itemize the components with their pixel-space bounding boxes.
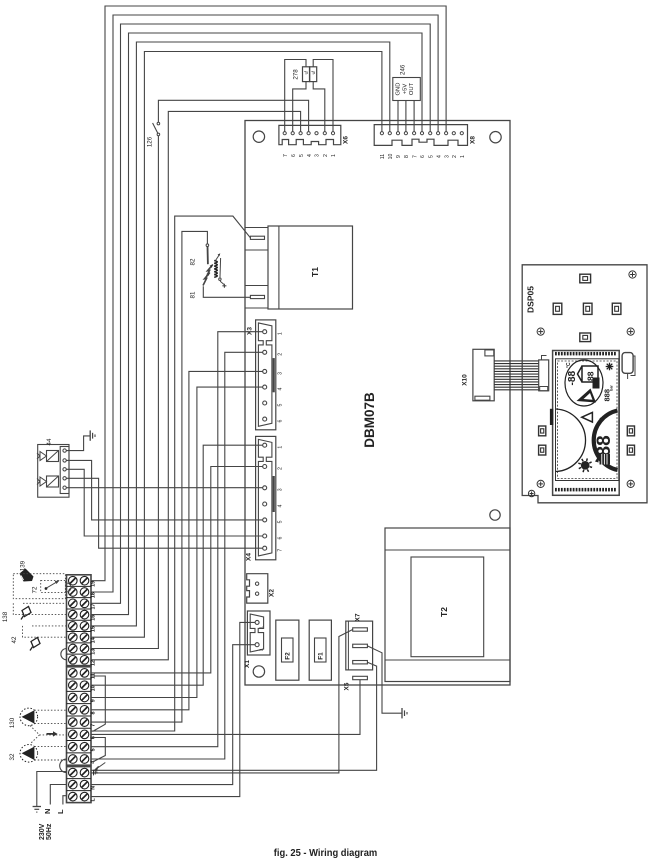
mounting hole bottom-left [253,666,264,677]
svg-text:4: 4 [278,388,284,391]
svg-text:8: 8 [90,712,96,715]
X8 pin 7 [413,132,416,135]
wire terminal17 loop to X8 pin5 [91,24,430,603]
X6 pin 2 [323,132,326,135]
sensor 138 symbol [22,607,31,617]
connector X1 housing [247,611,270,655]
svg-text:2: 2 [278,467,284,470]
svg-text:6: 6 [420,155,426,158]
svg-text:3: 3 [278,372,284,375]
svg-text:GND: GND [396,83,402,96]
terminal 17 row [67,608,92,610]
X8 pin 4 [437,132,440,135]
wire 278 right to X6 pin2 [313,82,325,132]
X8 pin 1 [460,132,463,135]
connector X8 [374,125,467,146]
X8 pin 9 [396,132,399,135]
valve 44 pin 2 [63,459,66,462]
fuse F1 [309,620,331,680]
terminal 14 row [67,642,92,644]
svg-text:5: 5 [299,154,305,157]
terminal 8 row [67,715,92,717]
LCD black tab left [550,409,553,425]
wire X7 blade3 to terminal earth [91,662,377,770]
DSP05 screw bottom corner [528,490,534,496]
wire valve44 pin4 to X4 pin7 [66,478,262,548]
box 246 [393,78,421,101]
svg-text:3: 3 [315,154,321,157]
X4 polarization rib [273,476,275,512]
connector X7 [346,621,373,670]
wire X5 to terminal6 [91,680,360,735]
svg-text:-88: -88 [567,370,578,385]
svg-text:N: N [43,809,52,814]
svg-text:3: 3 [278,488,284,491]
svg-text:X4: X4 [246,553,253,561]
valve 44 pin 3 [63,468,66,471]
DSP05 button top [580,274,591,283]
svg-text:7: 7 [90,724,96,727]
wire X7 blade1 to terminal earth [91,630,353,773]
svg-text:X3: X3 [247,327,254,335]
terminal earth row [67,778,92,780]
svg-text:81: 81 [190,291,197,298]
svg-text:1: 1 [278,332,284,335]
component 278 fuse body right [310,67,317,82]
wire X3 pin2 to terminal4 [91,352,263,759]
LCD tap icon [593,378,600,389]
wire switch 126 to X6 pin4 [158,100,308,131]
svg-text:2: 2 [259,648,264,651]
wire valve44 pin3 to X4 pin6 [66,469,262,536]
X6 pin 4 [307,132,310,135]
sensor 42 dashed link [32,625,67,627]
terminal 12 row [69,656,78,665]
svg-text:X7: X7 [355,613,362,621]
LCD dial arc left [556,409,586,472]
svg-text:6: 6 [278,420,284,423]
X6 pin 6 [291,132,294,135]
svg-text:72: 72 [32,586,39,593]
X4 pin 3 [263,486,267,490]
svg-text:18: 18 [90,592,96,598]
svg-text:10: 10 [90,685,96,691]
room thermostat 72 dotted box [41,580,66,592]
valve 44 solenoid 2 [47,476,59,487]
svg-text:50Hz: 50Hz [46,823,53,840]
DSP05 screw bottom right [627,480,634,487]
X6 pin 7 [283,132,286,135]
svg-text:7: 7 [278,549,284,552]
svg-text:9: 9 [396,155,402,158]
DSP05 side button right 2 [627,445,634,455]
X8 pin 2 [452,132,455,135]
board DBM07B outline [245,121,510,686]
terminal 4 row [69,755,78,764]
X3 pin 6 [263,417,267,421]
arc jumper terminal 4-earth [60,759,67,773]
svg-text:bar: bar [610,385,614,391]
sensor 42 symbol [31,638,40,648]
svg-text:F2: F2 [285,652,292,660]
wire terminal13 up to switch 126 [91,136,158,649]
svg-text:16: 16 [90,615,96,621]
wire terminal N pigtail [50,785,66,805]
svg-text:F1: F1 [318,652,325,660]
LCD comfort oval [565,360,603,406]
wire X1 pin1 to terminal L [91,622,255,796]
svg-text:126: 126 [147,136,154,147]
wire valve44 pin5 to X4 pin3 [66,487,262,489]
wire terminal16 loop to X8 pin6 [91,33,422,615]
DSP05 side button left 2 [539,445,546,455]
switch 126 [157,122,160,125]
mounting hole mid-right [490,510,500,520]
svg-text:32: 32 [9,753,16,760]
terminal 10 row [67,690,92,692]
svg-text:T2: T2 [439,607,449,617]
wire X3 pin1 to terminal5 [91,332,263,747]
terminal 9 row [67,703,92,705]
dotted enclosure 139/72 [13,574,65,599]
svg-text:fig. 25 - Wiring diagram: fig. 25 - Wiring diagram [274,848,378,859]
gas valve 44 box [38,445,69,498]
wire terminal earth pigtail [37,772,67,807]
svg-text:2: 2 [452,155,458,158]
svg-text:44: 44 [46,438,53,445]
arc jumper terminals 13-12 [61,649,67,660]
svg-text:N: N [90,786,96,790]
svg-text:278: 278 [293,69,300,80]
valve 44 pin 5 [63,486,66,489]
connector X4 housing [256,436,276,559]
DSP05 button row 1a [553,303,562,314]
svg-text:6: 6 [291,154,297,157]
connector X5 blade [353,676,368,679]
DSP05 button row 1c [612,303,621,314]
svg-text:5: 5 [90,748,96,751]
svg-text:11: 11 [380,154,386,159]
svg-text:8: 8 [404,155,410,158]
svg-text:5: 5 [278,520,284,523]
link terminal 4 to earth arrow [94,763,105,771]
sensor 138 dashed link [23,602,67,604]
terminal strip block B [67,667,92,765]
wire valve44 pin2 to X4 pin5 [66,460,262,520]
svg-text:9: 9 [90,699,96,702]
wire X4 pin1 to terminal10 [91,445,263,685]
ground symbol at valve 44 [66,436,90,451]
pump 130 dashed wires [34,709,66,711]
svg-text:DSP05: DSP05 [526,286,536,313]
arrow on terminal6 dashed wire [47,731,58,736]
DSP05 button mid [580,333,591,342]
svg-text:5: 5 [428,155,434,158]
svg-text:°C: °C [566,362,572,368]
LCD warning triangle small [582,412,593,422]
svg-text:1: 1 [460,155,466,158]
svg-text:82: 82 [190,258,197,265]
X8 pin 6 [420,132,423,135]
LCD snowflake [606,363,614,371]
svg-text:13: 13 [90,649,96,655]
valve 44 pin 1 [63,449,66,452]
X7 blade 3 [353,661,368,664]
wire 278 right to X6 pin1 [313,60,333,132]
link terminals 5-4 [91,738,105,763]
X4 pin 5 [263,518,267,522]
wire 278 left to X6 pin7 [285,60,306,132]
T1 blade bottom [250,295,264,298]
X3 polarization rib [273,358,275,392]
wire terminal14 loop to X8 pin11 [91,52,382,638]
svg-text:T1: T1 [310,267,320,277]
electrode 81 wire from T1 bottom blade [203,286,250,297]
X3 pin 2 [263,350,267,354]
DSP05 side button left 1 [539,426,546,436]
wire ignition electrode 82 from terminal7 [91,231,207,722]
LCD zebra top [555,352,557,356]
wire X7 blade2 to ground [367,646,401,713]
mounting hole top-right [490,132,501,143]
LCD dhw tap icon [600,454,611,465]
transformer T1 body [268,226,353,309]
svg-text:4: 4 [278,504,284,507]
svg-text:17: 17 [90,604,96,610]
X1 pin 2 [255,643,259,647]
connector X3 housing [256,320,276,430]
svg-text:246: 246 [400,64,407,75]
svg-text:X5: X5 [344,682,351,690]
svg-text:3: 3 [444,155,450,158]
wire terminal6 up to T1 top blade (diagonal) [91,216,250,731]
wire 246 GND to X8 pin9 [397,101,399,132]
plus sign [222,284,226,288]
LCD gauge ring thick [594,411,618,471]
svg-text:4: 4 [436,155,442,158]
wire terminal12 to X6 pin5 [91,111,301,659]
X4 pin 7 [263,546,267,550]
wire terminal19 loop to X8 pin3 [91,6,446,581]
svg-text:L: L [56,809,65,814]
valve 44 connector strip [60,447,69,494]
X8 pin 8 [404,132,407,135]
ground symbol below X7 [401,708,403,718]
X3 pin 3 [263,369,267,373]
svg-text:12: 12 [90,660,96,666]
svg-text:5: 5 [278,403,284,406]
coil top lead with arrow [216,255,220,261]
link terminals 11-6 [91,676,105,732]
wire X3 pin4 to terminal9 [91,387,263,697]
X8 pin 3 [445,132,448,135]
component 139 black wedge [20,569,34,582]
svg-text:1: 1 [259,626,264,629]
wire 246 OUT to X8 pin7 [413,101,415,132]
connector X2 [247,574,268,603]
svg-text:138: 138 [2,611,9,622]
svg-text:6: 6 [278,536,284,539]
connector X6 [279,125,341,144]
LCD screen border [556,359,619,481]
svg-text:2: 2 [323,154,329,157]
wire X4 pin2 to terminal11 [91,467,263,673]
wire 246 +5V to X8 pin8 [405,101,407,132]
X4 pin 4 [263,502,267,506]
dashed V link to arrow terminal6 [30,726,67,735]
pump 32 dashed wires [34,746,66,748]
T1 blade top [250,236,264,239]
svg-text:7: 7 [412,155,418,158]
connector X10 [473,349,494,401]
pump 32 symbol [20,745,38,763]
svg-text:230V: 230V [39,823,46,840]
T1 blade housing bottom [245,286,268,309]
X3 pin 4 [263,385,267,389]
svg-text:7: 7 [283,154,289,157]
svg-text:2: 2 [278,353,284,356]
X6 pin 5 [299,132,302,135]
LCD house icon with 88 [578,366,599,382]
terminal 19 row [67,585,92,587]
DSP05 ribbon connector [539,360,549,391]
X8 pin 10 [388,132,391,135]
svg-text:X8: X8 [470,136,477,144]
terminal 11 row [67,678,92,680]
DSP05 side button right 1 [627,426,634,436]
X8 pin 5 [429,132,432,135]
terminal strip block C [67,767,92,803]
transformer T2 body [385,528,510,682]
svg-text:88: 88 [594,435,615,456]
wire terminal15 loop to X8 pin10 [91,42,390,626]
X6 pin 1 [331,132,334,135]
arc into terminal 19 [67,583,72,592]
svg-text:OUT: OUT [409,82,415,95]
X3 pin 5 [263,401,267,405]
LCD zebra bottom [555,488,557,492]
svg-text:X10: X10 [462,374,469,386]
DSP05 screw top right [629,271,636,278]
DSP05 capacitor [622,353,633,374]
display board DSP05 outline [522,265,647,503]
spark arrows [203,273,210,286]
electrode 82 [206,244,209,247]
svg-text:15: 15 [90,626,96,632]
svg-text:°C: °C [600,417,606,424]
X8 pin 11 [380,132,383,135]
coil needle [219,258,222,278]
wire terminal18 loop to X8 pin4 [91,15,438,592]
wire X1 pin2 to terminal N [91,645,255,785]
X7 blade 2 [353,644,368,647]
terminal 5 row [67,752,92,754]
terminal 18 row [67,597,92,599]
fuse F2 [276,620,299,680]
svg-text:1: 1 [331,154,337,157]
DSP05 screw mid left [537,328,544,335]
ignition coil [214,261,217,278]
svg-text:130: 130 [9,717,16,728]
X4 pin 6 [263,534,267,538]
valve 44 solenoid 1 [47,451,59,462]
X1 pin 1 [255,620,259,624]
wire terminal L pigtail [63,796,67,805]
wire 278 left to X6 pin6 [293,82,306,132]
svg-text:42: 42 [11,636,18,643]
svg-text:1: 1 [278,446,284,449]
ribbon cable X10 to DSP05 [494,360,539,362]
terminal N row [67,790,92,792]
earth symbol mains [33,806,41,808]
svg-text:DBM07B: DBM07B [362,392,377,448]
mounting hole top-left [253,131,264,142]
svg-text:10: 10 [388,154,394,160]
terminal 6 row [67,740,92,742]
svg-text:X6: X6 [343,136,350,144]
valve 44 pin 4 [63,477,66,480]
svg-text:X2: X2 [269,589,276,597]
svg-text:19: 19 [90,581,96,587]
LCD warning triangle filled [577,389,597,403]
terminal 7 row [67,727,92,729]
wire X3 pin3 to terminal8 [91,371,263,709]
T2 core [411,557,484,657]
svg-text:X1: X1 [244,660,251,668]
terminal strip block A [67,575,92,666]
terminal 15 row [67,631,92,633]
X4 pin 2 [263,465,267,469]
DSP05 screw mid right [627,328,634,335]
switch 72 [45,587,48,590]
X3 pin 1 [263,330,267,334]
terminal L row [69,792,78,801]
X7 blade 1 [353,628,368,631]
svg-text:+5V: +5V [402,84,408,95]
pump 130 symbol [20,708,38,726]
component 278 fuse body left [303,67,310,82]
LCD module frame [553,351,620,496]
LCD sun icon [578,458,592,472]
DSP05 button row 1b [583,303,592,314]
terminal 16 row [67,619,92,621]
X6 pin 3 [315,132,318,135]
terminal 13 row [67,653,92,655]
X4 pin 1 [263,443,267,447]
svg-text:4: 4 [307,154,313,157]
T1 blade housing top [245,228,268,251]
svg-text:14: 14 [90,637,96,643]
DSP05 screw bottom left [537,480,544,487]
